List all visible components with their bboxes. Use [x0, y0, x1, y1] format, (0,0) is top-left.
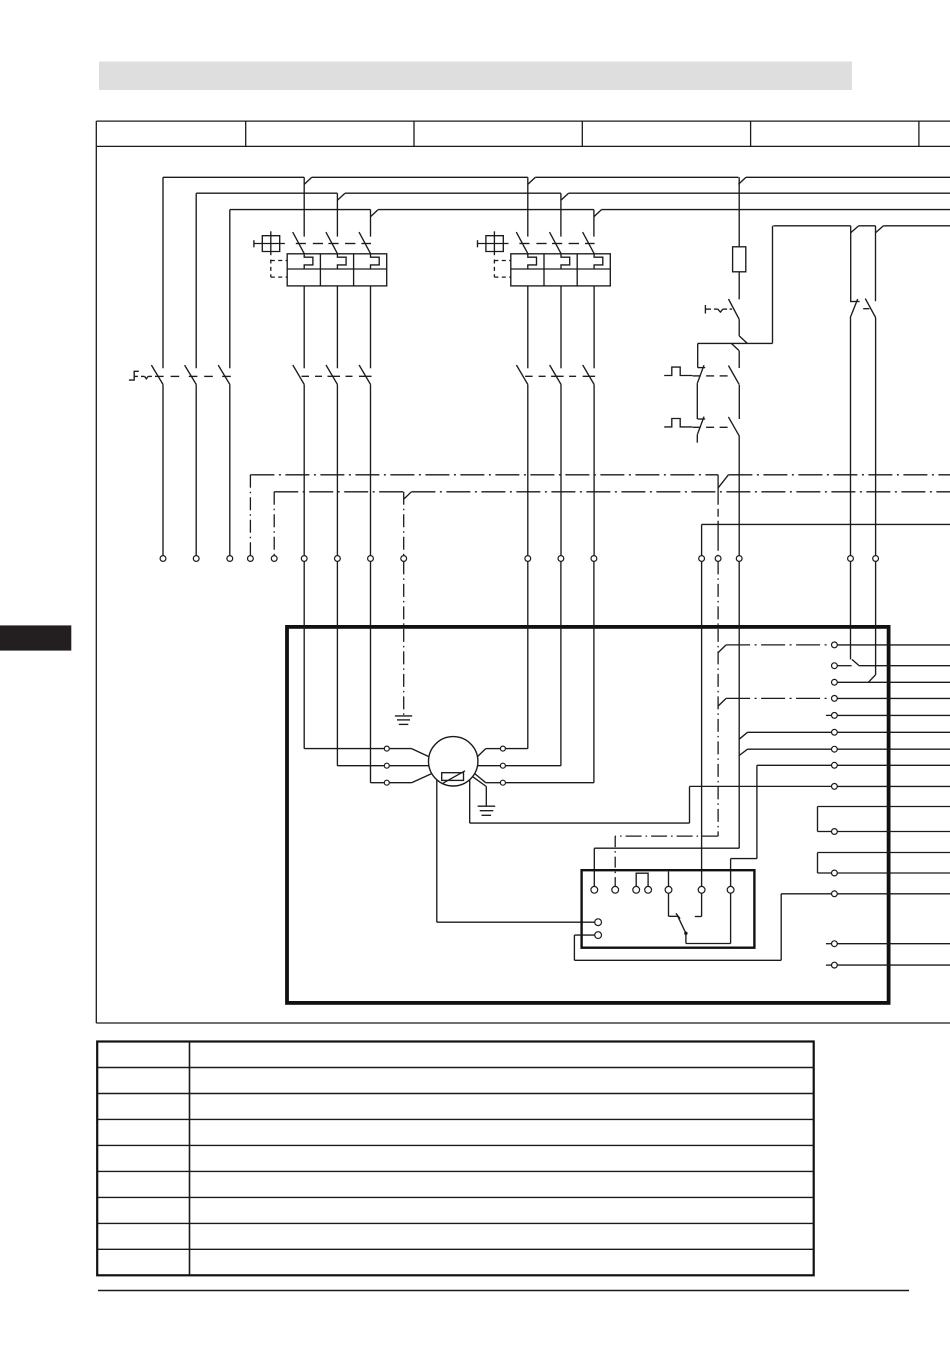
breaker Q2 heater element x594: [594, 254, 603, 269]
control rail jog down to right branch: [731, 343, 739, 350]
breaker Q1 pole contact x304: [293, 232, 305, 254]
motor lead to connector: [436, 780, 438, 922]
main switch lower wire x163: [162, 384, 164, 555]
breaker Q2 heater element x528: [528, 254, 537, 269]
wire aux bus: [773, 225, 850, 227]
wires between S1 and S2: [696, 383, 698, 419]
wire bus L2 corner: [195, 193, 197, 368]
breaker Q1 pole lower wire x337: [336, 286, 338, 368]
breaker Q2 pole lower wire x561: [560, 286, 562, 368]
breaker Q1 operator icon: [262, 236, 279, 252]
breaker Q1 heater element x304: [304, 254, 313, 269]
footer rule: [98, 1290, 909, 1292]
motor M1: [429, 737, 478, 786]
breaker Q2 body: [511, 254, 611, 286]
pressure switch S1 actuator: [664, 367, 692, 375]
feeder to connector pin 6: [701, 561, 703, 886]
wire bus L1 corner: [162, 177, 164, 368]
aux contact K NC x851: [850, 226, 852, 302]
terminal 12 line: [781, 893, 831, 895]
S2 NC dead-end stub: [696, 435, 698, 443]
breaker Q1 heater element x370: [371, 254, 380, 269]
wire bus L3 corner: [229, 210, 231, 369]
terminal 1 line (chain): [718, 645, 726, 653]
aux contact K NO x875: [875, 226, 877, 301]
terminal 8 line: [757, 764, 832, 766]
chain line 1 mid drop: [717, 475, 719, 556]
wire bus L2: [196, 192, 337, 194]
main switch lower wire x230: [229, 384, 231, 555]
breaker Q1 mech linkage (dashed): [270, 260, 272, 278]
breaker Q2 pole lower wire x594: [593, 286, 595, 368]
breaker Q2 pole contact x528: [516, 232, 528, 254]
terminal 10 staple: [818, 831, 832, 833]
connector block X1: [582, 870, 755, 948]
chain line 1: [250, 474, 718, 476]
motor feed wires into box: [303, 561, 305, 748]
contactor K2 lower wire x528: [527, 384, 529, 555]
contactor K2 blade x561: [550, 365, 561, 384]
legend table: [97, 1042, 814, 1276]
breaker Q1 trip linkage dashes: [296, 243, 306, 245]
terminal 4: [832, 696, 838, 702]
contactor K1 blade x304: [293, 365, 304, 384]
terminal 9: [832, 784, 838, 790]
terminal 3: [832, 679, 838, 685]
terminal 13 stub: [826, 943, 832, 945]
connector pins: [591, 886, 598, 893]
contactor K1 lower wire x337: [336, 384, 338, 555]
diagram frame: [95, 146, 97, 1023]
main switch lower wire x196: [195, 384, 197, 555]
title bar (grey band): [99, 62, 852, 91]
contactor K1 blade x370: [359, 365, 370, 384]
contactor K2 blade x528: [516, 365, 527, 384]
breaker Q2 trip linkage dashes: [519, 243, 529, 245]
main switch tilde linkage: [141, 375, 145, 377]
contactor K2 linkage dashes: [525, 375, 533, 377]
chain line 2 PE drop: [403, 492, 405, 556]
selector switch in block: [668, 893, 670, 916]
terminal 12: [832, 891, 838, 897]
pin5 stub: [668, 872, 670, 887]
breaker Q2 pole contact x561: [550, 232, 562, 254]
breaker Q1 heater element x337: [337, 254, 346, 269]
pressure switch S1 NC pole: [698, 367, 706, 369]
breaker Q2 operator icon: [486, 236, 503, 252]
fuse F1: [738, 177, 740, 247]
motor lead to terminal 9: [469, 780, 471, 823]
chain line 1 left drop: [249, 475, 251, 556]
aux NC feeder lower: [850, 561, 852, 659]
breaker Q2 pole contact x594: [583, 232, 595, 254]
pressure switch S2 linkage dashes: [693, 426, 701, 428]
motor frame ground wire: [473, 777, 487, 787]
terminal 11: [832, 870, 838, 876]
fixed contact under pin6: [701, 893, 703, 916]
pressure switch S2 NC pole: [698, 418, 706, 420]
breaker Q2 pole lower wire x528: [527, 286, 529, 368]
breaker Q2 heater element x561: [561, 254, 570, 269]
terminal 5: [832, 713, 838, 719]
motor terminals left: [384, 746, 389, 751]
pressure switch S2 actuator: [664, 419, 692, 427]
pressure switch S1 linkage dashes: [693, 375, 701, 377]
legend table column divider: [189, 1042, 191, 1276]
pin3-pin4 bridge: [636, 873, 648, 886]
terminal 13: [832, 941, 838, 947]
wire bus L1: [163, 176, 304, 178]
terminal 4 line (chain): [718, 698, 726, 706]
control rail riser to aux bus: [772, 226, 774, 344]
breaker Q1 body: [287, 254, 387, 286]
thermal overload contact blade: [729, 299, 740, 319]
contactor K2 blade x594: [583, 365, 594, 384]
chain feeder to connector pin 2: [717, 561, 719, 836]
terminal 6 line: [739, 732, 747, 739]
terminal 1: [832, 642, 838, 648]
control rail: [698, 342, 773, 344]
wire bus L3: [230, 209, 371, 211]
contactor K1 blade x337: [326, 365, 337, 384]
control rail left drop: [697, 343, 699, 367]
S2 NO lower wire: [738, 436, 740, 556]
block left pin 2 wire: [574, 934, 594, 936]
ground symbol motor: [478, 805, 496, 807]
feeder to connector pin 1: [738, 561, 740, 848]
pressure switch S2 NO pole: [728, 417, 739, 436]
terminal 10: [832, 829, 838, 835]
PE chain drop to ground: [403, 561, 405, 716]
unit enclosure (thick box): [287, 627, 889, 1003]
contactor K1 lower wire x304: [303, 384, 305, 555]
breaker Q1 pole lower wire x370: [370, 286, 372, 368]
ground symbol PE: [395, 715, 412, 717]
motor terminals right: [500, 746, 505, 751]
breaker Q1 pole contact x370: [359, 232, 371, 254]
main switch release symbol F~: [129, 371, 139, 380]
contactor K1 lower wire x370: [370, 384, 372, 555]
terminal 8: [832, 762, 838, 768]
terminal 5 stub: [826, 714, 832, 716]
aux NO feeder lower: [875, 561, 877, 675]
main switch blades: [151, 365, 163, 384]
terminal 14: [832, 962, 838, 968]
thermal overload release symbol: [704, 305, 706, 314]
breaker drop wires from buses: [303, 177, 305, 236]
terminal 7: [832, 746, 838, 752]
pressure switch S1 NO pole: [728, 366, 739, 385]
feedback rail y524: [702, 523, 950, 525]
breaker Q2 mech linkage (dashed): [493, 260, 495, 278]
terminal 2: [832, 663, 838, 669]
chain line 2 left drop: [273, 492, 275, 556]
terminal circles row: [160, 556, 166, 562]
motor thermistor: [442, 773, 464, 781]
contactor K1 linkage dashes: [302, 375, 310, 377]
contactor K2 lower wire x561: [560, 384, 562, 555]
node rail jog up-right: [739, 336, 747, 344]
terminal 9 line: [690, 785, 832, 787]
terminal 6: [832, 729, 838, 735]
terminal 11 staple: [818, 872, 832, 874]
header table: [96, 120, 950, 122]
black side tab: [0, 625, 71, 650]
chain line 2: [274, 491, 404, 493]
breaker Q1 pole lower wire x304: [303, 286, 305, 368]
terminal 7 line: [739, 749, 747, 755]
contactor K2 lower wire x594: [593, 384, 595, 555]
breaker Q1 pole contact x337: [326, 232, 338, 254]
terminal 14 stub: [826, 964, 832, 966]
